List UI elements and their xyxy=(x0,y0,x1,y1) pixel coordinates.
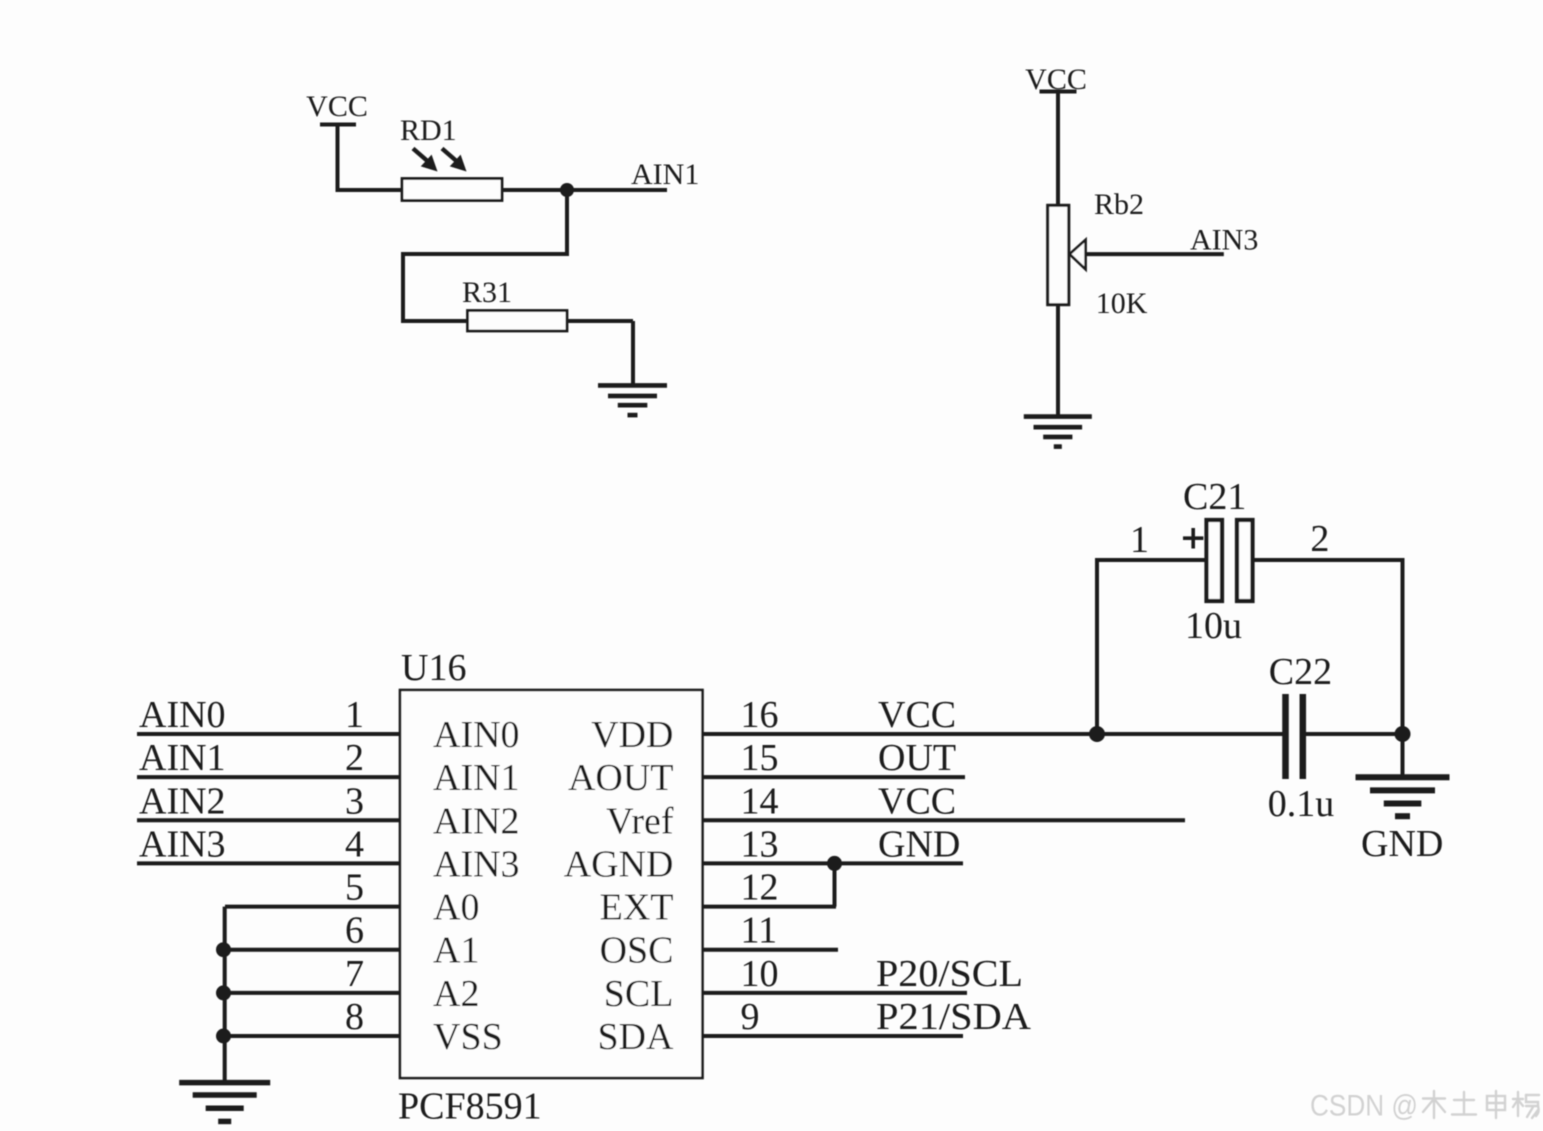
svg-text:C21: C21 xyxy=(1183,476,1246,518)
svg-text:10u: 10u xyxy=(1185,605,1242,647)
svg-text:AIN3: AIN3 xyxy=(433,843,520,885)
svg-text:PCF8591: PCF8591 xyxy=(398,1086,542,1128)
svg-text:11: 11 xyxy=(741,910,778,952)
svg-text:9: 9 xyxy=(741,996,760,1038)
svg-text:1: 1 xyxy=(1130,519,1149,561)
svg-text:14: 14 xyxy=(741,780,779,822)
svg-text:AIN1: AIN1 xyxy=(433,757,520,799)
svg-text:6: 6 xyxy=(345,910,364,952)
svg-text:5: 5 xyxy=(345,867,364,909)
svg-text:Vref: Vref xyxy=(606,800,674,842)
svg-text:AIN3: AIN3 xyxy=(139,823,226,865)
svg-text:AIN3: AIN3 xyxy=(1190,224,1258,257)
svg-text:OUT: OUT xyxy=(878,737,956,779)
svg-text:AIN0: AIN0 xyxy=(433,714,520,756)
svg-text:AIN1: AIN1 xyxy=(631,158,699,191)
svg-text:2: 2 xyxy=(1310,518,1329,560)
svg-text:P21/SDA: P21/SDA xyxy=(876,996,1032,1038)
svg-text:13: 13 xyxy=(741,823,779,865)
svg-text:AOUT: AOUT xyxy=(568,757,674,799)
svg-text:VCC: VCC xyxy=(1025,63,1087,96)
svg-text:VSS: VSS xyxy=(433,1016,503,1058)
svg-text:SCL: SCL xyxy=(604,973,674,1015)
svg-text:AGND: AGND xyxy=(564,843,674,885)
svg-text:8: 8 xyxy=(345,996,364,1038)
svg-text:7: 7 xyxy=(345,953,364,995)
svg-text:OSC: OSC xyxy=(600,930,674,972)
svg-text:AIN2: AIN2 xyxy=(139,780,226,822)
svg-text:15: 15 xyxy=(741,737,779,779)
svg-text:VCC: VCC xyxy=(306,90,368,123)
svg-text:AIN1: AIN1 xyxy=(139,737,226,779)
svg-text:VCC: VCC xyxy=(878,780,956,822)
svg-text:P20/SCL: P20/SCL xyxy=(876,953,1023,995)
svg-text:A1: A1 xyxy=(433,930,479,972)
svg-text:VDD: VDD xyxy=(591,714,673,756)
svg-text:SDA: SDA xyxy=(597,1016,674,1058)
svg-text:GND: GND xyxy=(878,823,960,865)
svg-text:12: 12 xyxy=(741,867,779,909)
svg-text:10: 10 xyxy=(741,953,779,995)
svg-text:0.1u: 0.1u xyxy=(1268,783,1335,825)
svg-text:A2: A2 xyxy=(433,973,479,1015)
svg-text:AIN0: AIN0 xyxy=(139,694,226,736)
svg-text:GND: GND xyxy=(1361,823,1443,865)
svg-text:EXT: EXT xyxy=(600,887,674,929)
svg-text:3: 3 xyxy=(345,780,364,822)
svg-text:RD1: RD1 xyxy=(400,114,457,147)
svg-text:AIN2: AIN2 xyxy=(433,800,520,842)
svg-text:2: 2 xyxy=(345,737,364,779)
svg-text:10K: 10K xyxy=(1096,287,1148,320)
svg-text:CSDN @: CSDN @ xyxy=(1310,1090,1418,1123)
svg-text:Rb2: Rb2 xyxy=(1094,188,1144,221)
svg-text:A0: A0 xyxy=(433,887,479,929)
svg-text:R31: R31 xyxy=(462,276,512,309)
svg-text:16: 16 xyxy=(741,694,779,736)
svg-text:C22: C22 xyxy=(1269,651,1332,693)
svg-text:U16: U16 xyxy=(401,647,466,689)
svg-text:4: 4 xyxy=(345,823,364,865)
svg-text:1: 1 xyxy=(345,694,364,736)
svg-text:VCC: VCC xyxy=(878,694,956,736)
